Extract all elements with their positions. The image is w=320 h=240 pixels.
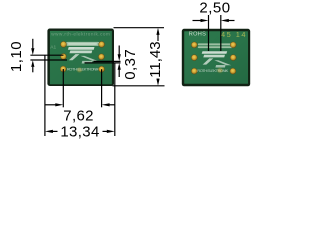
PCB board 1 (front side photo) [47, 29, 114, 87]
dimension 0,37 lines and arrows [85, 46, 121, 78]
svg-text:2,50: 2,50 [199, 0, 230, 16]
svg-text:13,34: 13,34 [60, 123, 99, 140]
dimension 13,34 line and arrows [45, 130, 115, 133]
board 2 pads (6 gold pads) [191, 42, 236, 74]
svg-text:7,62: 7,62 [63, 107, 94, 124]
svg-text:45 14: 45 14 [221, 30, 246, 39]
dimension 7,62 extension lines [63, 69, 101, 107]
svg-text:A1: A1 [50, 45, 56, 51]
svg-text:ROTH ELEKTRONIK: ROTH ELEKTRONIK [67, 66, 100, 71]
board 1 gold smudge [77, 68, 82, 72]
dimension 11,43 lines and arrows [113, 28, 165, 86]
dimension 13,34 extension lines [45, 55, 115, 136]
PCB board 2 (back side photo) [182, 29, 250, 87]
svg-text:www.rth-elektronik.com: www.rth-elektronik.com [51, 31, 110, 36]
board 2 traces [198, 43, 233, 48]
board 1 pads (6 gold pads) [60, 41, 104, 72]
svg-text:11,43: 11,43 [147, 41, 164, 77]
board 2 logo (Roth R watermark) [202, 51, 232, 67]
board 2 gold smudge [217, 68, 222, 72]
board 1 logo (Roth R watermark) [68, 47, 99, 64]
svg-text:ROHS: ROHS [189, 31, 206, 37]
dimension 2,50 lines and arrows [193, 15, 235, 51]
svg-text:0,37: 0,37 [122, 49, 139, 80]
svg-text:1,10: 1,10 [8, 41, 25, 72]
svg-text:ROTH ELEKTRONIK: ROTH ELEKTRONIK [197, 68, 228, 73]
board 1 footprint traces [66, 42, 100, 46]
dimension 7,62 arrows [45, 103, 115, 106]
dimension 1,10 lines and arrows [30, 39, 67, 73]
